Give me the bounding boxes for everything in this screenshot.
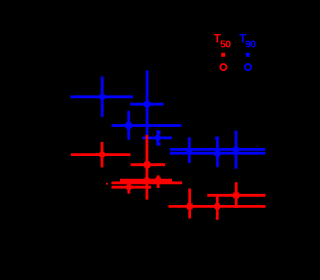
point B4 bottom cap	[159, 142, 161, 145]
long lower bar	[170, 152, 265, 155]
cluster bar B	[112, 181, 183, 184]
svg-text:50: 50	[220, 40, 231, 51]
point B3 error bars	[112, 124, 182, 127]
point Ra error bar	[127, 179, 130, 193]
point B7 error bar	[235, 131, 238, 169]
point R2 error bars	[131, 163, 166, 166]
legend blue open circle	[245, 64, 251, 70]
legend red square	[221, 53, 225, 57]
point B6 marker	[214, 150, 221, 157]
point B4 marker	[155, 135, 161, 141]
point B4 top cap	[159, 131, 161, 135]
point Re error bar	[216, 196, 219, 220]
point B2 marker	[144, 101, 151, 108]
point B2 error bars	[130, 103, 163, 106]
legend red open circle	[220, 64, 226, 70]
point R1 marker	[99, 151, 106, 158]
legend blue square	[246, 53, 250, 57]
point Ra marker	[126, 184, 132, 190]
point Rf marker	[233, 192, 239, 198]
point B4 error bars	[142, 136, 172, 139]
long lower-right bar	[169, 205, 266, 208]
point B6 top cap	[215, 137, 217, 140]
point Rc error bar	[157, 175, 160, 188]
blue series T90	[70, 71, 265, 169]
long upper-right bar	[207, 194, 265, 197]
small stub left of cluster	[106, 183, 108, 185]
point Rd error bar	[188, 189, 191, 219]
point B3 marker	[125, 122, 133, 130]
cluster bar C	[112, 186, 152, 189]
point B1 marker	[99, 93, 106, 100]
point R2 marker	[143, 161, 151, 169]
long upper bar	[170, 148, 265, 151]
point B5 marker	[186, 148, 192, 154]
point Rb marker	[144, 178, 149, 183]
cluster bar A	[120, 179, 172, 182]
point Rc marker	[155, 177, 161, 183]
point Re marker	[214, 203, 221, 210]
point R1 error bars	[71, 153, 131, 156]
point Rf error bar	[235, 182, 238, 208]
legend T90 label	[239, 32, 256, 51]
point B1 error bars	[70, 95, 133, 98]
point B7 marker	[233, 146, 240, 153]
red series T50	[71, 135, 266, 220]
point B6 error bar	[216, 137, 219, 168]
point B5 error bar	[188, 137, 191, 163]
legend T50 label	[214, 32, 231, 51]
svg-text:90: 90	[245, 40, 256, 51]
point Rd marker	[187, 203, 193, 209]
